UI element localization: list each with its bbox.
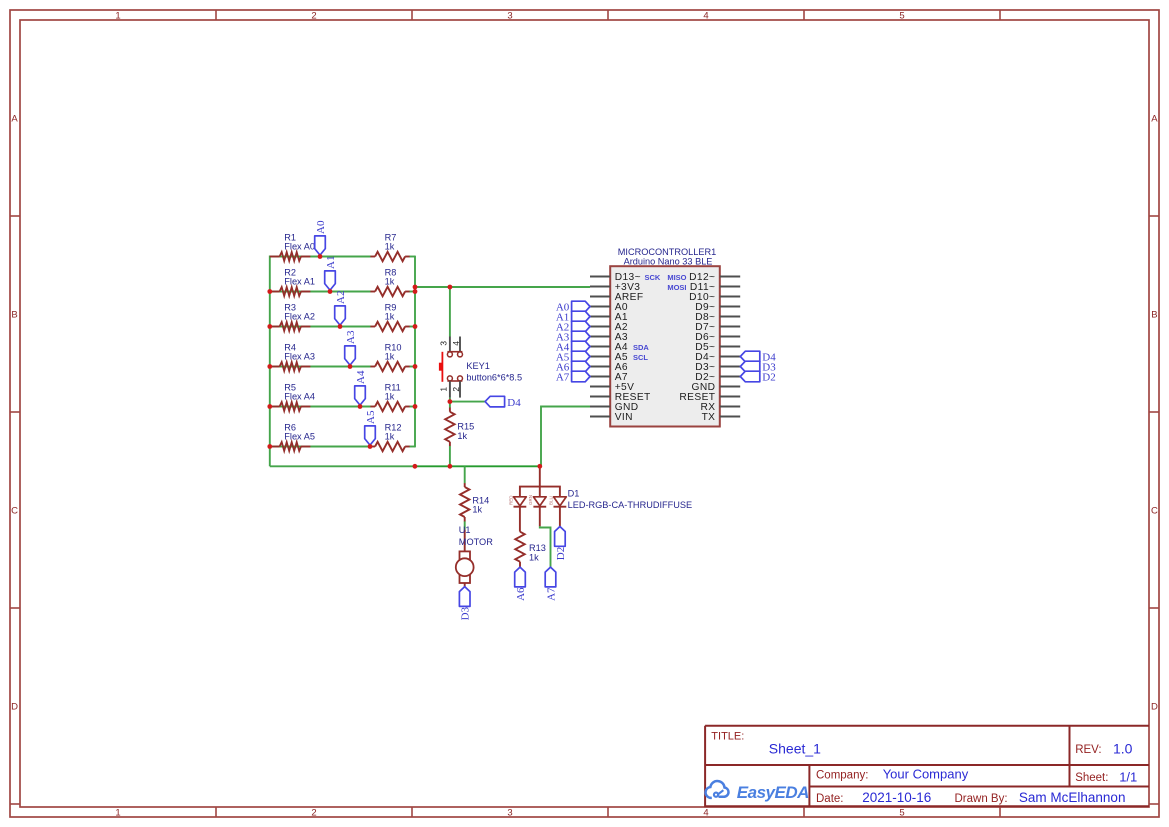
svg-text:TX: TX xyxy=(702,412,716,423)
net flag D2 xyxy=(555,527,566,547)
resistor R3 body xyxy=(280,322,302,331)
wire left vertical bus xyxy=(269,256,271,467)
svg-text:R15: R15 xyxy=(457,421,474,431)
net flag A5 on row 6 xyxy=(365,426,376,445)
net flag D4 at MCU xyxy=(740,351,760,362)
title block divider under title row xyxy=(705,764,1149,766)
svg-text:1/1: 1/1 xyxy=(1119,769,1137,784)
svg-text:1: 1 xyxy=(439,387,449,392)
junction at flag A2 xyxy=(338,324,343,329)
wire R7 to right bus xyxy=(410,256,415,258)
mcu right pin D10~ line xyxy=(720,296,740,298)
svg-text:D2: D2 xyxy=(555,547,567,560)
wire MCU GND to LED anode node xyxy=(541,407,590,467)
svg-text:1: 1 xyxy=(115,807,120,818)
junction bus/+3V3 wire xyxy=(413,285,418,290)
led D1 green triangle xyxy=(533,497,546,506)
easyeda logo swirl circle xyxy=(714,793,718,797)
resistor R9 lead right xyxy=(405,326,410,328)
resistor R11 body xyxy=(375,402,405,411)
junction right bus row 2 xyxy=(413,289,418,294)
switch KEY1 contact circle pin 1 xyxy=(447,376,452,381)
ruler ticks left xyxy=(10,216,20,804)
mcu left pin VIN line xyxy=(590,416,610,418)
svg-text:U1: U1 xyxy=(459,525,471,535)
net flag A0 at MCU xyxy=(572,301,590,312)
svg-text:5: 5 xyxy=(899,10,904,21)
svg-text:3: 3 xyxy=(507,10,512,21)
switch KEY1 pin 3 line xyxy=(449,337,451,352)
svg-text:D: D xyxy=(1151,701,1158,712)
net flag A4 on row 5 xyxy=(355,386,366,405)
svg-text:A: A xyxy=(1151,113,1158,124)
wire R15 to bottom bus xyxy=(449,446,451,466)
svg-text:B: B xyxy=(11,309,17,320)
svg-text:A2: A2 xyxy=(335,291,347,304)
svg-text:1k: 1k xyxy=(472,505,482,515)
junction left bus row 2 xyxy=(267,289,272,294)
net flag D4 xyxy=(485,396,505,407)
mcu left pin A6 line xyxy=(590,366,610,368)
ruler ticks bottom xyxy=(216,807,1000,817)
resistor R8 lead right xyxy=(405,291,410,293)
resistor R6 lead right xyxy=(301,446,311,448)
mcu right pin TX line xyxy=(720,416,740,418)
resistor R2 lead right xyxy=(301,291,311,293)
resistor R4 lead right xyxy=(301,366,311,368)
svg-text:MICROCONTROLLER1: MICROCONTROLLER1 xyxy=(618,247,717,257)
resistor R2 body xyxy=(280,287,302,296)
mcu right pin D11~ line xyxy=(720,286,740,288)
led D1 anode pin from bus xyxy=(539,466,541,486)
wire bottom bus right segment xyxy=(415,465,540,467)
net flag A6 at MCU xyxy=(572,361,590,372)
svg-text:SDA: SDA xyxy=(633,343,649,352)
svg-text:SCL: SCL xyxy=(633,353,648,362)
microcontroller MICROCONTROLLER1 body xyxy=(610,266,720,426)
svg-text:4: 4 xyxy=(451,341,461,346)
resistor R3 lead left xyxy=(270,326,280,328)
switch KEY1 contact circle pin 3 xyxy=(447,352,452,357)
wire led green cathode to A7 xyxy=(540,526,551,567)
svg-text:D1: D1 xyxy=(568,489,580,499)
resistor R11 lead left xyxy=(370,406,375,408)
svg-text:RED: RED xyxy=(508,495,513,505)
resistor R7 body xyxy=(375,252,405,261)
mcu left pin RESET line xyxy=(590,396,610,398)
resistor R9 lead left xyxy=(370,326,375,328)
svg-text:1k: 1k xyxy=(385,312,395,322)
resistor R8 body xyxy=(375,287,405,296)
mcu right pin D5~ line xyxy=(720,346,740,348)
net flag A4 at MCU xyxy=(572,341,590,352)
svg-text:1k: 1k xyxy=(457,431,467,441)
svg-text:Date:: Date: xyxy=(816,793,844,805)
resistor R12 body xyxy=(375,442,405,451)
mcu right pin D3~ line xyxy=(720,366,740,368)
title block divider REV column xyxy=(1069,726,1071,787)
svg-text:EasyEDA: EasyEDA xyxy=(737,783,809,802)
resistor R6 body xyxy=(280,442,302,451)
switch KEY1 top contact bar xyxy=(447,351,462,353)
mcu right pin D7~ line xyxy=(720,326,740,328)
svg-text:2: 2 xyxy=(311,10,316,21)
resistor R9 body xyxy=(375,322,405,331)
wire R12 to right bus xyxy=(410,446,415,448)
svg-text:A6: A6 xyxy=(515,587,527,601)
wire bottom bus left segment xyxy=(270,465,415,467)
svg-text:SCK: SCK xyxy=(645,273,661,282)
motor U1 body circle xyxy=(456,558,474,576)
title block divider logo cell xyxy=(808,765,810,806)
svg-text:3: 3 xyxy=(507,807,512,818)
junction right bus row 3 xyxy=(413,324,418,329)
svg-text:A7: A7 xyxy=(556,371,570,383)
motor U1 pin bottom xyxy=(464,583,466,587)
led D1 blue cathode lead xyxy=(559,507,561,527)
mcu left pin AREF line xyxy=(590,296,610,298)
resistor R4 body xyxy=(280,362,302,371)
svg-text:1: 1 xyxy=(115,10,120,21)
switch KEY1 bottom contact bar xyxy=(447,380,462,382)
svg-text:MISO: MISO xyxy=(667,273,686,282)
net flag A7 xyxy=(545,567,556,587)
resistor R10 lead right xyxy=(405,366,410,368)
junction at flag A5 xyxy=(368,444,373,449)
resistor R6 lead left xyxy=(270,446,280,448)
svg-text:Flex A3: Flex A3 xyxy=(284,352,315,362)
led D1 green cathode lead xyxy=(539,507,541,527)
svg-text:GRN: GRN xyxy=(528,495,533,505)
svg-text:Sheet:: Sheet: xyxy=(1075,772,1108,784)
svg-text:D3: D3 xyxy=(460,606,472,620)
switch KEY1 contact circle pin 4 xyxy=(458,352,463,357)
resistor R8 lead left xyxy=(370,291,375,293)
motor U1 body rect xyxy=(460,551,471,583)
easyeda logo swirl xyxy=(718,790,723,794)
ruler ticks top xyxy=(216,10,1000,20)
mcu right pin D12~ line xyxy=(720,276,740,278)
svg-text:1k: 1k xyxy=(529,552,539,562)
svg-text:A5: A5 xyxy=(365,410,377,424)
mcu left pin A0 line xyxy=(590,306,610,308)
resistor R13 lead bottom xyxy=(519,562,521,567)
wire R14 to motor U1 xyxy=(464,521,466,529)
net flag D3 at MCU xyxy=(740,361,760,372)
net flag A1 at MCU xyxy=(572,311,590,322)
mcu left pin A5 line xyxy=(590,356,610,358)
svg-text:3: 3 xyxy=(439,341,449,346)
junction at flag A4 xyxy=(358,404,363,409)
svg-text:TITLE:: TITLE: xyxy=(711,730,744,742)
svg-text:Sheet_1: Sheet_1 xyxy=(769,741,821,757)
switch KEY1 contact circle pin 2 xyxy=(458,376,463,381)
wire row 1 horizontal xyxy=(270,256,371,258)
resistor R15 body xyxy=(445,412,454,442)
svg-text:VIN: VIN xyxy=(615,412,633,423)
svg-text:Company:: Company: xyxy=(816,770,868,782)
svg-text:A3: A3 xyxy=(345,330,357,344)
mcu left pin A4 line xyxy=(590,346,610,348)
net flag A7 at MCU xyxy=(572,371,590,382)
svg-text:Arduino Nano 33 BLE: Arduino Nano 33 BLE xyxy=(624,257,713,267)
wire row 3 horizontal xyxy=(270,326,371,328)
wire bus down to R14 xyxy=(464,466,466,483)
svg-text:MOTOR: MOTOR xyxy=(459,537,493,547)
mcu left pin A1 line xyxy=(590,316,610,318)
resistor R1 lead left xyxy=(270,256,280,258)
wire bus to MCU +3V3 xyxy=(415,286,590,288)
mcu right pin D6~ line xyxy=(720,336,740,338)
svg-text:Flex A4: Flex A4 xyxy=(284,392,315,402)
svg-text:Flex A5: Flex A5 xyxy=(284,432,315,442)
net flag A2 on row 3 xyxy=(335,306,346,325)
wire R11 to right bus xyxy=(410,406,415,408)
net flag A0 on row 1 xyxy=(315,236,326,255)
switch KEY1 actuator red plunger xyxy=(439,363,443,371)
mcu left pin A3 line xyxy=(590,336,610,338)
junction right bus row 4 xyxy=(413,364,418,369)
junction KEY1 branch on +3V3 wire xyxy=(448,285,453,290)
led D1 anode drop middle xyxy=(539,487,541,497)
net flag A1 on row 2 xyxy=(325,271,336,290)
wire KEY1 pin1 to node xyxy=(449,398,451,402)
svg-text:Flex A1: Flex A1 xyxy=(284,277,315,287)
led D1 red triangle xyxy=(514,497,527,506)
wire row 6 horizontal xyxy=(270,446,371,448)
mcu left pin A7 line xyxy=(590,376,610,378)
svg-text:4: 4 xyxy=(703,807,708,818)
switch KEY1 pin 1 line xyxy=(449,381,451,398)
svg-text:2021-10-16: 2021-10-16 xyxy=(862,790,931,805)
resistor R1 body xyxy=(280,252,302,261)
switch KEY1 pin 4 line xyxy=(459,337,461,352)
mcu right pin D4~ line xyxy=(720,356,740,358)
junction at flag A3 xyxy=(348,364,353,369)
title block divider date row xyxy=(809,786,1149,788)
led D1 red cathode lead xyxy=(519,507,521,532)
svg-text:LED-RGB-CA-THRUDIFFUSE: LED-RGB-CA-THRUDIFFUSE xyxy=(568,500,693,510)
svg-text:Drawn By:: Drawn By: xyxy=(955,793,1008,805)
column numbers bottom xyxy=(115,807,904,818)
svg-text:button6*6*8.5: button6*6*8.5 xyxy=(466,372,522,382)
junction right bus row 5 xyxy=(413,404,418,409)
resistor R15 lead top xyxy=(449,408,451,412)
title block outline xyxy=(705,726,1149,807)
svg-text:C: C xyxy=(11,505,18,516)
svg-text:KEY1: KEY1 xyxy=(466,361,490,371)
svg-text:D: D xyxy=(11,701,18,712)
wire R8 to right bus xyxy=(410,291,415,293)
svg-text:2: 2 xyxy=(451,387,461,392)
junction left bus row 4 xyxy=(267,364,272,369)
resistor R2 lead left xyxy=(270,291,280,293)
led D1 blue cathode bar xyxy=(554,506,567,508)
ruler ticks right xyxy=(1149,216,1159,804)
resistor R5 lead left xyxy=(270,406,280,408)
svg-text:1k: 1k xyxy=(385,242,395,252)
resistor R7 lead left xyxy=(370,256,375,258)
row letters left xyxy=(11,113,18,712)
resistor R7 lead right xyxy=(405,256,410,258)
svg-text:B: B xyxy=(1151,309,1157,320)
wire row 4 horizontal xyxy=(270,366,371,368)
junction KEY1/R15/D4 node xyxy=(448,399,453,404)
mcu left pin D13~ line xyxy=(590,276,610,278)
junction left bus row 3 xyxy=(267,324,272,329)
svg-text:1k: 1k xyxy=(385,392,395,402)
resistor R12 lead left xyxy=(370,446,375,448)
net flag A5 at MCU xyxy=(572,351,590,362)
svg-text:BLU: BLU xyxy=(548,496,553,505)
wire +3V3 down to KEY1 pin 3 xyxy=(449,287,451,337)
net flag D2 at MCU xyxy=(740,371,760,382)
wire row 5 horizontal xyxy=(270,406,371,408)
svg-text:REV:: REV: xyxy=(1075,744,1101,756)
svg-text:5: 5 xyxy=(899,807,904,818)
svg-text:1k: 1k xyxy=(385,277,395,287)
wire row 2 horizontal xyxy=(270,291,371,293)
svg-text:A4: A4 xyxy=(355,370,367,384)
mcu right pin D8~ line xyxy=(720,316,740,318)
resistor R5 lead right xyxy=(301,406,311,408)
svg-text:A: A xyxy=(11,113,18,124)
net flag A2 at MCU xyxy=(572,321,590,332)
led D1 anode rail xyxy=(520,487,560,497)
resistor R3 lead right xyxy=(301,326,311,328)
net flag A3 at MCU xyxy=(572,331,590,342)
resistor R10 body xyxy=(375,362,405,371)
svg-text:1k: 1k xyxy=(385,352,395,362)
net flag D3 xyxy=(459,587,470,607)
wire R9 to right bus xyxy=(410,326,415,328)
wire node to R15 xyxy=(449,402,451,408)
mcu left pin +5V line xyxy=(590,386,610,388)
wire R10 to right bus xyxy=(410,366,415,368)
resistor R10 lead left xyxy=(370,366,375,368)
mcu right pin D9~ line xyxy=(720,306,740,308)
motor U1 pin top xyxy=(464,530,466,552)
svg-text:Flex A2: Flex A2 xyxy=(284,312,315,322)
resistor R14 body xyxy=(460,487,469,517)
resistor R12 lead right xyxy=(405,446,410,448)
mcu right pin GND line xyxy=(720,386,740,388)
mcu right pin RESET line xyxy=(720,396,740,398)
junction bottom bus at R15 xyxy=(448,464,453,469)
mcu right pin RX line xyxy=(720,406,740,408)
svg-text:A7: A7 xyxy=(545,587,557,601)
svg-text:2: 2 xyxy=(311,807,316,818)
resistor R1 lead right xyxy=(301,256,311,258)
resistor R13 body xyxy=(515,532,524,562)
resistor R11 lead right xyxy=(405,406,410,408)
svg-text:Flex A0: Flex A0 xyxy=(284,242,315,252)
junction left bus row 5 xyxy=(267,404,272,409)
resistor R14 lead top xyxy=(464,483,466,487)
svg-text:C: C xyxy=(1151,505,1158,516)
resistor R14 lead bottom xyxy=(464,517,466,522)
row letters right xyxy=(1151,113,1158,712)
svg-text:A0: A0 xyxy=(315,220,327,234)
svg-text:1k: 1k xyxy=(385,432,395,442)
resistor R4 lead left xyxy=(270,366,280,368)
led D1 blue triangle xyxy=(554,497,567,506)
led D1 green cathode bar xyxy=(533,506,546,508)
led D1 red cathode bar xyxy=(514,506,527,508)
resistor R5 body xyxy=(280,402,302,411)
svg-text:4: 4 xyxy=(703,10,708,21)
mcu right pin D2~ line xyxy=(720,376,740,378)
switch KEY1 pin 2 line xyxy=(459,381,461,398)
svg-text:Your Company: Your Company xyxy=(883,767,969,782)
junction at flag A0 xyxy=(318,254,323,259)
junction bottom bus at LED anode xyxy=(537,464,542,469)
column numbers top xyxy=(115,10,904,21)
junction left bus row 6 xyxy=(267,444,272,449)
resistor R15 lead bottom xyxy=(449,442,451,446)
svg-text:1.0: 1.0 xyxy=(1113,741,1133,757)
wire right vertical bus xyxy=(414,256,416,448)
mcu left pin GND line xyxy=(590,406,610,408)
svg-text:MOSI: MOSI xyxy=(667,283,686,292)
mcu left pin +3V3 line xyxy=(590,286,610,288)
junction at flag A1 xyxy=(328,289,333,294)
svg-text:D4: D4 xyxy=(507,397,521,409)
junction bottom bus at right bus column xyxy=(413,464,418,469)
mcu left pin A2 line xyxy=(590,326,610,328)
switch KEY1 actuator red line xyxy=(441,352,443,382)
svg-text:Sam McElhannon: Sam McElhannon xyxy=(1019,790,1126,805)
net flag A3 on row 4 xyxy=(345,346,356,365)
net flag A6 xyxy=(515,567,526,587)
easyeda logo cloud xyxy=(706,781,729,798)
wire node to D4 flag xyxy=(450,401,485,403)
svg-text:A1: A1 xyxy=(325,256,337,269)
svg-text:D2: D2 xyxy=(762,371,775,383)
